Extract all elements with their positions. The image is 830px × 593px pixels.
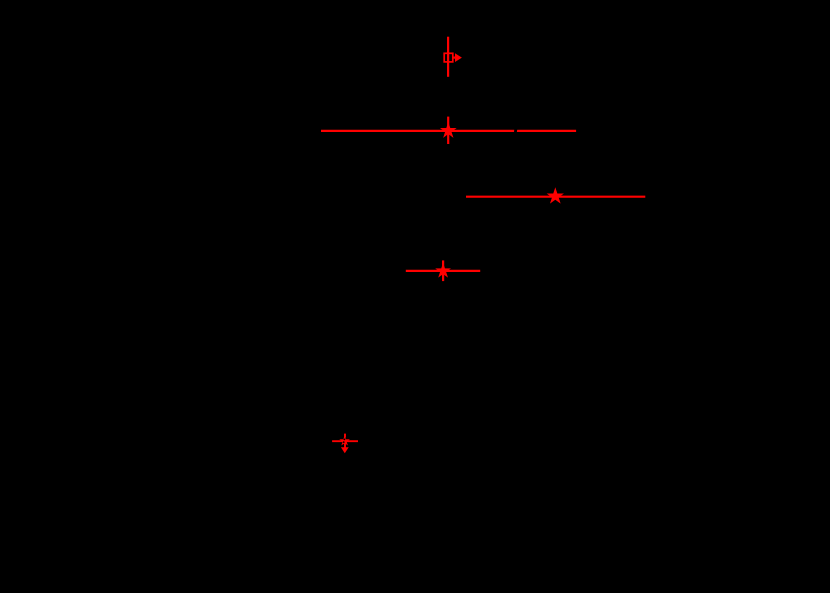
point 5: filled star marker [339,435,350,445]
point 5: down-pointing limit arrow head [341,447,349,453]
point 1: right-pointing limit arrow stem [453,56,456,58]
occlusion dot inside point 5 star [344,439,346,441]
point 2: horizontal error bar right segment [517,130,576,132]
point 2: vertical error bar [447,117,449,144]
point 2: filled star marker [440,122,457,138]
point 4: vertical error bar [442,260,444,281]
point 1: vertical error bar [447,37,449,77]
occlusion notch across point 2 bar (slanted gap) [515,128,517,133]
point 3: filled star marker [547,187,564,203]
occlusion dot lower inside point 5 star [343,441,345,443]
point 3: horizontal error bar [466,196,645,198]
point 5: vertical error bar upper stub [344,434,346,438]
point 1: right-pointing limit arrow head [455,53,462,62]
point 4: horizontal error bar [406,270,480,272]
point 2: horizontal error bar left segment [321,130,514,132]
point 5: down-pointing limit arrow stem [344,443,346,448]
point 5: horizontal error bar [332,440,358,442]
point 4: filled star marker [435,263,451,278]
point 1: open square marker [444,53,453,62]
